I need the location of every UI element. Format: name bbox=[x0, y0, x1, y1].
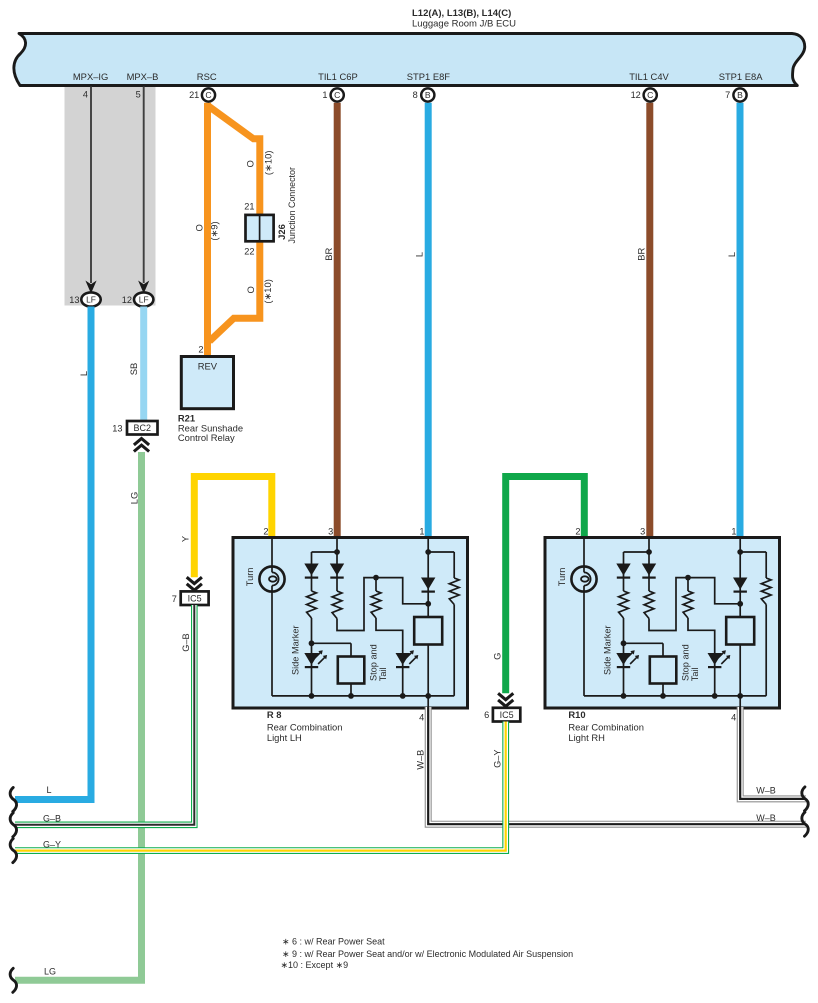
wire O branch (RSC to J26) bbox=[209, 107, 260, 342]
svg-text:LG: LG bbox=[129, 492, 140, 505]
svg-text:1: 1 bbox=[322, 90, 327, 100]
wire MPX-B (pin 5) bbox=[143, 87, 145, 284]
svg-text:13: 13 bbox=[69, 295, 79, 305]
svg-text:G–B: G–B bbox=[181, 633, 191, 651]
stop and tail LED of R8 bbox=[402, 653, 404, 696]
svg-text:G–B: G–B bbox=[43, 814, 61, 824]
svg-text:G–Y: G–Y bbox=[43, 840, 61, 850]
resistor R1 of R8 bbox=[307, 591, 317, 618]
svg-text:2: 2 bbox=[575, 527, 580, 537]
svg-text:(∗10): (∗10) bbox=[262, 279, 273, 304]
wire W-B (R10 pin 4 to right edge) bbox=[740, 707, 806, 799]
diode D2 of R8 bbox=[336, 552, 338, 591]
svg-text:R 8: R 8 bbox=[267, 709, 282, 720]
svg-text:L: L bbox=[46, 785, 51, 795]
svg-text:B: B bbox=[425, 90, 431, 100]
svg-text:MPX–IG: MPX–IG bbox=[73, 71, 108, 82]
chevron arrows above IC5 (R8) bbox=[187, 577, 202, 590]
wire pin1 node of R8 bbox=[427, 539, 429, 552]
square element B of R10 bbox=[726, 617, 754, 645]
resistor R2 of R10 bbox=[644, 591, 654, 619]
svg-text:∗10 : Except ∗9: ∗10 : Except ∗9 bbox=[281, 960, 349, 970]
resistor R3 of R10 bbox=[683, 591, 693, 618]
connector LF (pin 12) bbox=[134, 292, 153, 306]
rear combination light R8 box bbox=[233, 538, 468, 709]
wire W-B (R8 pin 4 to right edge) bbox=[428, 707, 806, 824]
svg-text:Stop and: Stop and bbox=[681, 644, 691, 681]
svg-text:4: 4 bbox=[83, 89, 88, 99]
resistor R2 of R8 bbox=[332, 591, 342, 619]
resistor R4 of R8 bbox=[453, 552, 455, 578]
wire node to diode D3 anode of R8 bbox=[376, 578, 428, 604]
svg-text:2: 2 bbox=[263, 527, 268, 537]
arrow MPX-B bbox=[138, 281, 149, 294]
wire pin3 node of R8 bbox=[336, 539, 338, 552]
svg-text:LG: LG bbox=[44, 967, 56, 977]
svg-text:W–B: W–B bbox=[756, 785, 776, 795]
chevron arrows above IC5 (R10) bbox=[498, 693, 513, 706]
svg-text:C: C bbox=[334, 90, 340, 100]
rear combination light R10 box bbox=[545, 538, 780, 709]
wire pin1 node of R10 bbox=[739, 539, 741, 552]
wire BR (TIL1 C6P to R8 pin 3) bbox=[334, 103, 341, 538]
wire MPX-IG (pin 4) bbox=[90, 87, 92, 284]
svg-text:BR: BR bbox=[323, 247, 334, 260]
svg-text:1: 1 bbox=[419, 527, 424, 537]
svg-text:3: 3 bbox=[328, 527, 333, 537]
turn lamp bulb of R10 bbox=[583, 539, 585, 572]
svg-text:1: 1 bbox=[731, 527, 736, 537]
svg-text:22: 22 bbox=[244, 246, 254, 256]
diode D2 of R10 bbox=[648, 552, 650, 591]
svg-text:O: O bbox=[245, 286, 256, 293]
wire element B to pin 4 of R10 bbox=[739, 645, 741, 709]
svg-text:BR: BR bbox=[635, 247, 646, 260]
bottom rail of R10 bbox=[584, 695, 740, 697]
svg-text:MPX–B: MPX–B bbox=[127, 71, 159, 82]
svg-text:L: L bbox=[414, 252, 425, 257]
svg-text:R10: R10 bbox=[568, 709, 585, 720]
svg-text:O: O bbox=[245, 160, 256, 167]
wire pin3 node of R10 bbox=[648, 539, 650, 552]
svg-text:BC2: BC2 bbox=[133, 423, 151, 433]
bottom rail of R8 bbox=[272, 695, 428, 697]
svg-text:L12(A), L13(B), L14(C): L12(A), L13(B), L14(C) bbox=[412, 8, 511, 19]
svg-text:2: 2 bbox=[198, 345, 203, 355]
svg-text:W–B: W–B bbox=[756, 813, 776, 823]
svg-text:Y: Y bbox=[179, 535, 190, 542]
svg-text:4: 4 bbox=[731, 713, 736, 723]
svg-text:LF: LF bbox=[86, 295, 96, 305]
svg-text:21: 21 bbox=[189, 90, 199, 100]
svg-text:Tail: Tail bbox=[378, 667, 388, 681]
connector LF (pin 13) bbox=[81, 292, 100, 306]
wire L (STP1 E8A to R10 pin 1) bbox=[737, 103, 744, 538]
break mark right (W-B upper) bbox=[802, 787, 808, 811]
break mark left (G-Y) bbox=[10, 839, 16, 863]
wire BR (TIL1 C4V to R10 pin 3) bbox=[646, 103, 653, 538]
wire Y (IC5 to R8 pin 2) bbox=[194, 477, 271, 578]
shield block (MPX bus shading) bbox=[65, 85, 156, 306]
svg-text:21: 21 bbox=[244, 202, 254, 212]
svg-text:C: C bbox=[205, 90, 211, 100]
wire O main (RSC to R21) bbox=[204, 103, 211, 356]
svg-text:Control Relay: Control Relay bbox=[178, 432, 235, 443]
diode D3 of R10 bbox=[739, 552, 741, 617]
svg-text:Light LH: Light LH bbox=[267, 732, 302, 743]
svg-text:5: 5 bbox=[136, 89, 141, 99]
svg-text:7: 7 bbox=[725, 90, 730, 100]
svg-text:Light RH: Light RH bbox=[568, 732, 604, 743]
wire element B to pin 4 of R8 bbox=[427, 645, 429, 709]
wire L (STP1 E8F to R8 pin 1) bbox=[425, 103, 432, 538]
square element A of R10 bbox=[624, 642, 664, 644]
diode D1 of R10 bbox=[623, 552, 625, 591]
svg-text:Side Marker: Side Marker bbox=[603, 625, 613, 675]
svg-text:13: 13 bbox=[112, 423, 122, 433]
break mark left (LG) bbox=[10, 968, 16, 992]
svg-text:Stop and: Stop and bbox=[369, 644, 379, 681]
svg-text:8: 8 bbox=[413, 90, 418, 100]
svg-text:C: C bbox=[647, 90, 653, 100]
svg-text:TIL1 C4V: TIL1 C4V bbox=[629, 71, 669, 82]
svg-text:G: G bbox=[491, 653, 502, 660]
svg-text:G–Y: G–Y bbox=[492, 750, 502, 768]
svg-text:7: 7 bbox=[172, 594, 177, 604]
chevron arrows below BC2 bbox=[134, 439, 149, 452]
side marker LED of R10 bbox=[623, 643, 625, 696]
wire G-B (IC5 pin 7 to left edge) bbox=[15, 605, 194, 825]
svg-text:IC5: IC5 bbox=[500, 710, 514, 720]
break mark left (L) bbox=[10, 788, 16, 812]
svg-text:TIL1 C6P: TIL1 C6P bbox=[318, 71, 358, 82]
side marker LED of R8 bbox=[311, 643, 313, 696]
svg-text:Junction Connector: Junction Connector bbox=[287, 167, 297, 244]
svg-text:(∗9): (∗9) bbox=[209, 221, 220, 240]
svg-text:L: L bbox=[726, 252, 737, 257]
svg-text:REV: REV bbox=[198, 360, 218, 371]
wire G-Y (IC5 pin 6 to left edge) bbox=[15, 722, 506, 851]
svg-text:(∗10): (∗10) bbox=[262, 151, 273, 176]
arrow MPX-IG bbox=[85, 281, 96, 294]
resistor R3 of R8 bbox=[371, 591, 381, 618]
svg-text:Side Marker: Side Marker bbox=[291, 625, 301, 675]
svg-text:Turn: Turn bbox=[245, 568, 255, 587]
svg-text:O: O bbox=[194, 224, 205, 231]
svg-text:12: 12 bbox=[122, 295, 132, 305]
turn lamp bulb of R8 bbox=[271, 539, 273, 572]
svg-text:Tail: Tail bbox=[690, 667, 700, 681]
svg-text:W–B: W–B bbox=[415, 750, 425, 770]
wire node to diode D3 anode of R10 bbox=[688, 578, 740, 604]
svg-text:STP1 E8F: STP1 E8F bbox=[407, 71, 451, 82]
square element B of R8 bbox=[414, 617, 442, 645]
stop and tail LED of R10 bbox=[714, 653, 716, 696]
svg-text:LF: LF bbox=[139, 295, 149, 305]
break mark right (W-B lower) bbox=[802, 812, 808, 836]
svg-text:L: L bbox=[78, 371, 89, 376]
svg-text:STP1 E8A: STP1 E8A bbox=[719, 71, 764, 82]
wire G (IC5 to R10 pin 2) bbox=[506, 477, 585, 694]
svg-text:B: B bbox=[737, 90, 743, 100]
svg-text:6: 6 bbox=[484, 710, 489, 720]
svg-text:Luggage Room J/B ECU: Luggage Room J/B ECU bbox=[412, 18, 516, 29]
svg-text:Rear Combination: Rear Combination bbox=[267, 721, 343, 732]
wire R2 to node of R10 bbox=[649, 578, 688, 631]
junction connector J26 bbox=[246, 215, 274, 241]
svg-text:12: 12 bbox=[631, 90, 641, 100]
bus: Luggage Room J/B ECU bbox=[14, 34, 805, 86]
connector IC5 (pin 6) bbox=[493, 708, 520, 722]
svg-text:RSC: RSC bbox=[197, 71, 217, 82]
wire L (LF to left edge) bbox=[15, 307, 91, 800]
connector BC2 (pin 13) bbox=[127, 421, 158, 435]
svg-text:Rear Combination: Rear Combination bbox=[568, 721, 644, 732]
svg-text:SB: SB bbox=[128, 363, 139, 376]
svg-text:J26: J26 bbox=[276, 224, 287, 240]
svg-text:Turn: Turn bbox=[557, 568, 567, 587]
wire R2 to node of R8 bbox=[337, 578, 376, 631]
diode D1 of R8 bbox=[311, 552, 313, 591]
resistor R1 of R10 bbox=[619, 591, 629, 618]
svg-text:3: 3 bbox=[640, 527, 645, 537]
break mark left (G-B) bbox=[10, 813, 16, 837]
resistor R4 of R10 bbox=[765, 552, 767, 578]
diode D3 of R8 bbox=[427, 552, 429, 617]
wire R3 to stop LED of R8 bbox=[376, 618, 403, 653]
svg-text:IC5: IC5 bbox=[188, 593, 202, 603]
square element A of R8 bbox=[312, 642, 352, 644]
wire LG (BC2 to bottom left) bbox=[15, 452, 142, 980]
svg-text:∗ 9 : w/ Rear Power Seat and/o: ∗ 9 : w/ Rear Power Seat and/or w/ Elect… bbox=[282, 949, 573, 959]
wire SB (LF to BC2) bbox=[140, 307, 147, 422]
relay R21 box (REV) bbox=[181, 357, 233, 409]
svg-text:4: 4 bbox=[419, 713, 424, 723]
connector IC5 (pin 7) bbox=[181, 591, 209, 605]
wire R3 to stop LED of R10 bbox=[688, 618, 715, 653]
svg-text:∗ 6 : w/ Rear Power Seat: ∗ 6 : w/ Rear Power Seat bbox=[282, 937, 385, 947]
